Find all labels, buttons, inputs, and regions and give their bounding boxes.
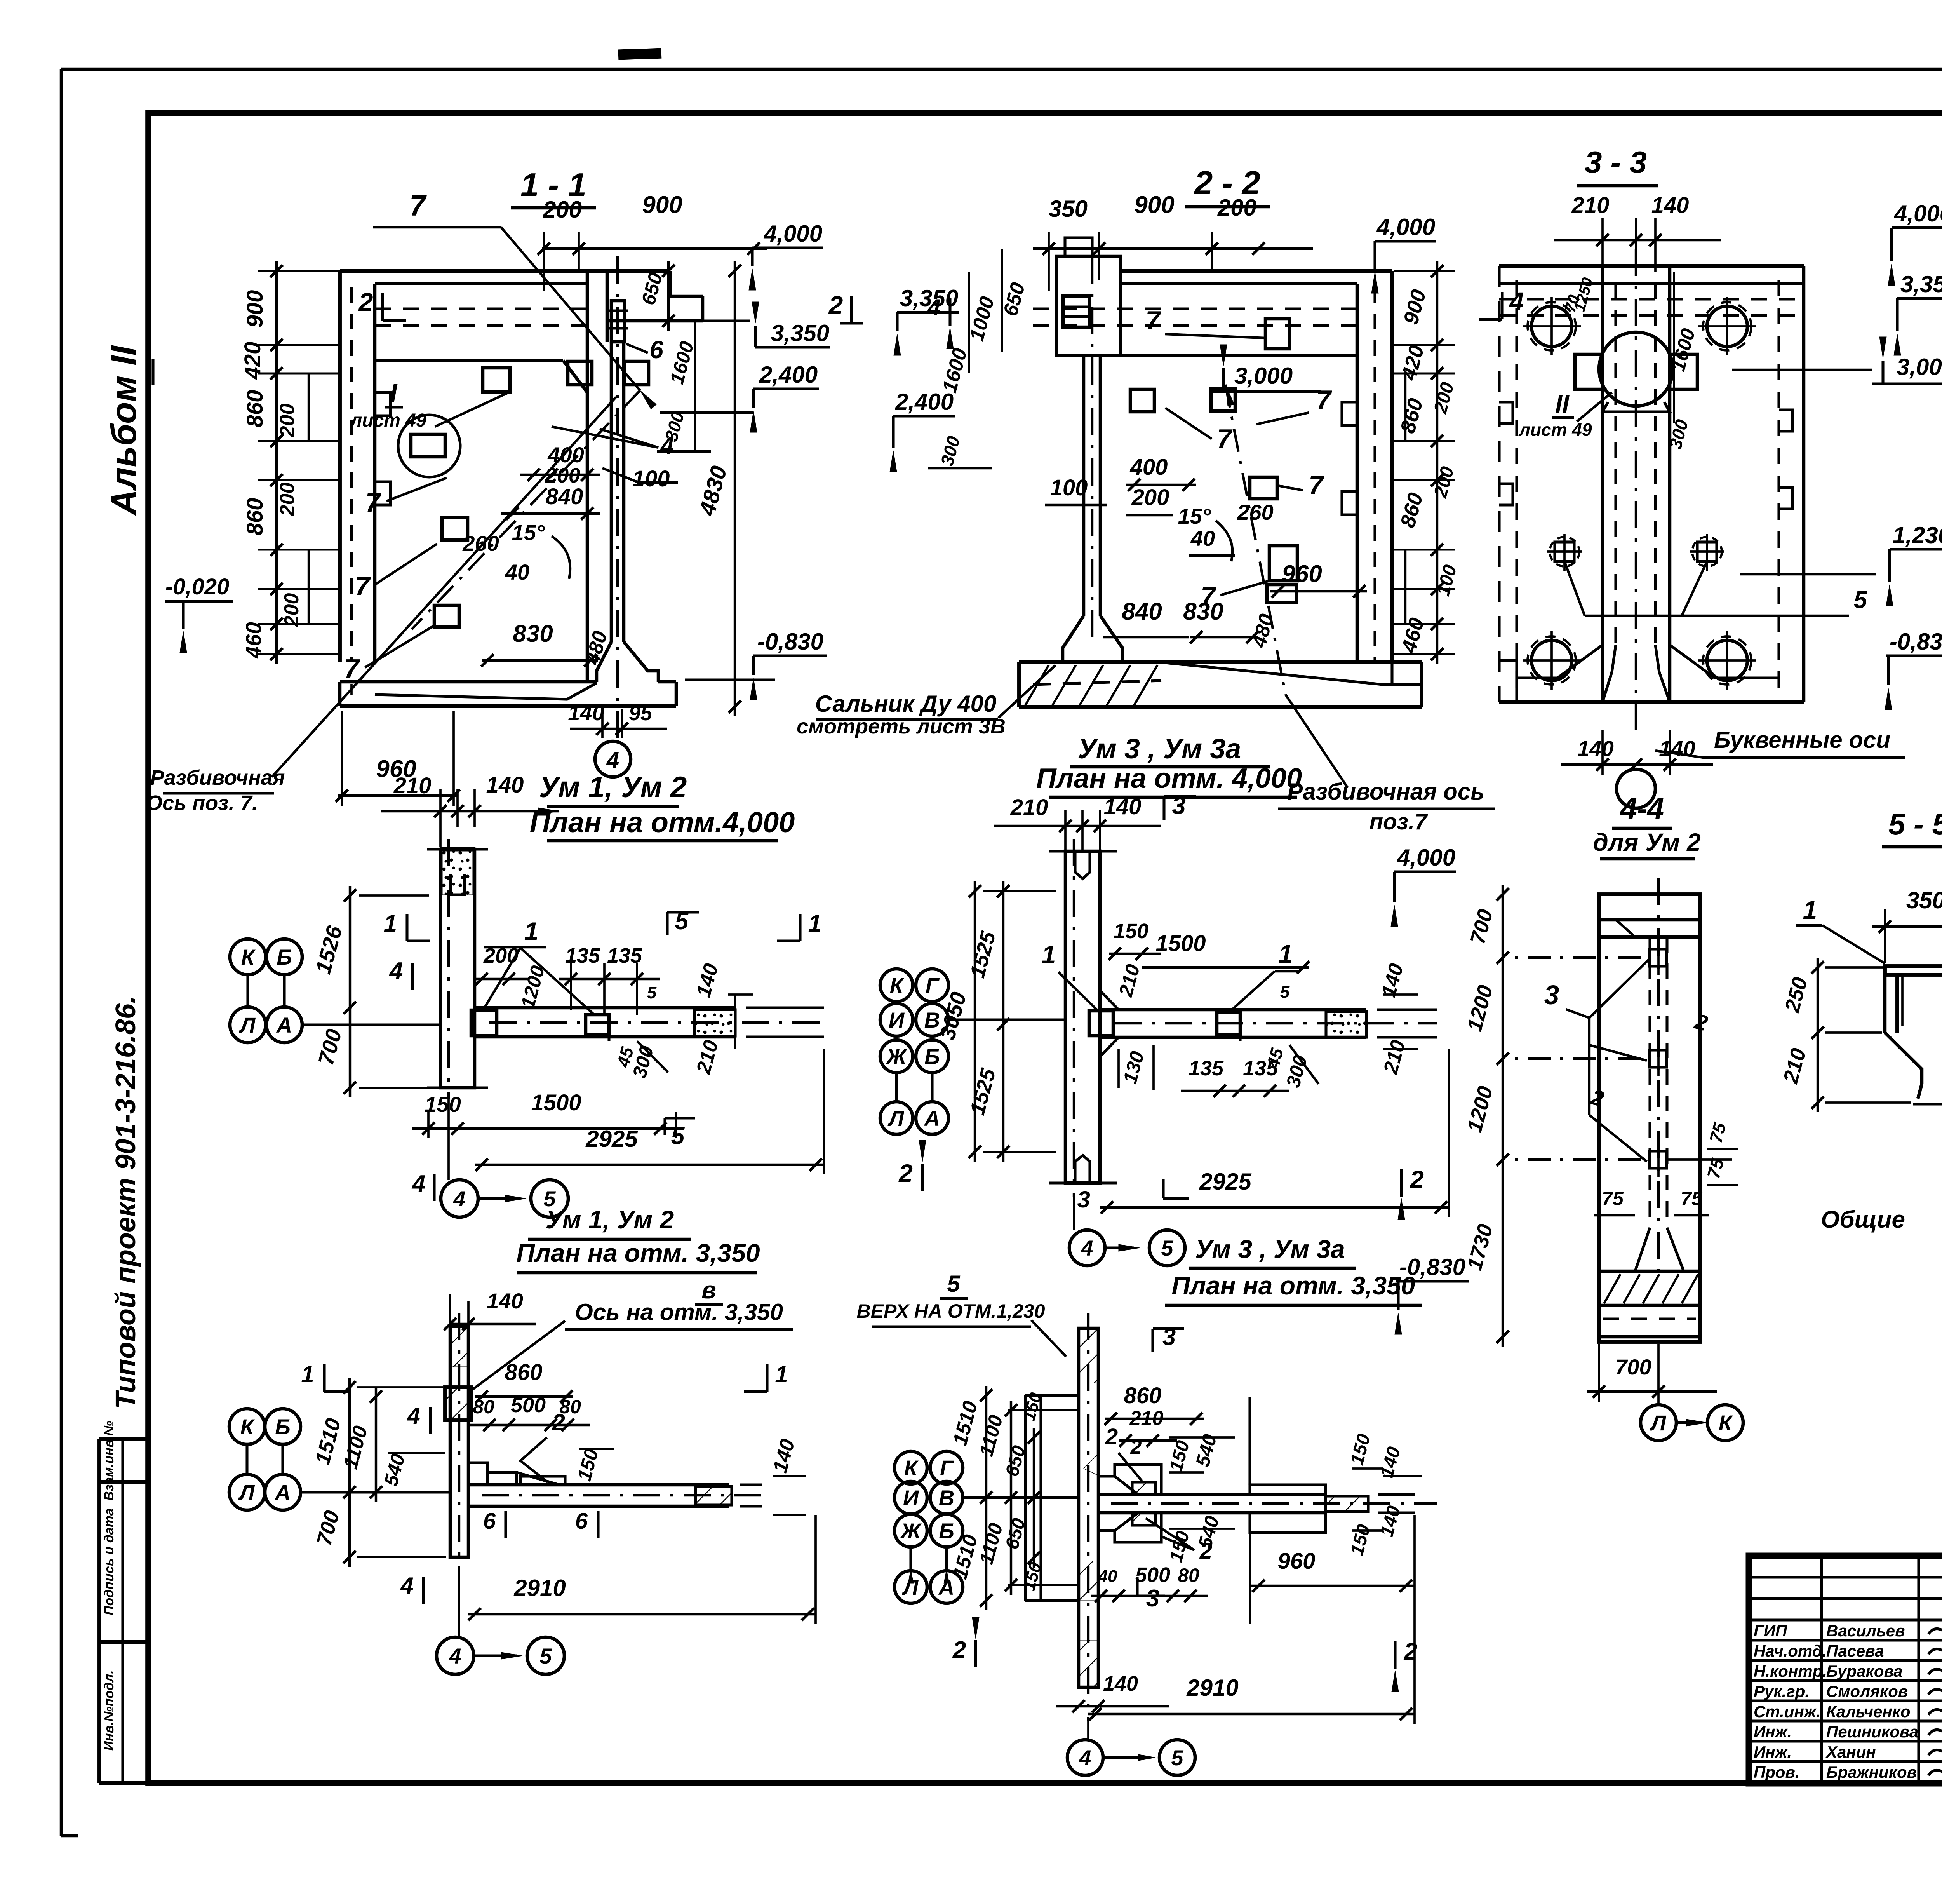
svg-text:1: 1 <box>301 1361 314 1387</box>
svg-text:140: 140 <box>1104 794 1142 819</box>
svg-text:4: 4 <box>606 747 619 773</box>
svg-text:ВЕРХ НА ОТМ.1,230: ВЕРХ НА ОТМ.1,230 <box>857 1300 1045 1322</box>
svg-text:Ум 1, Ум 2: Ум 1, Ум 2 <box>539 771 687 804</box>
svg-text:Ж: Ж <box>900 1519 922 1543</box>
svg-text:К: К <box>1719 1411 1733 1435</box>
svg-text:К: К <box>890 973 905 998</box>
svg-text:2: 2 <box>358 287 373 316</box>
svg-text:140: 140 <box>568 700 604 725</box>
svg-text:Ось поз. 7.: Ось поз. 7. <box>146 791 258 815</box>
svg-text:-0,830: -0,830 <box>1399 1254 1465 1280</box>
svg-text:Ст.инж.: Ст.инж. <box>1754 1702 1820 1721</box>
svg-text:7: 7 <box>409 189 427 222</box>
svg-text:500: 500 <box>1135 1563 1170 1587</box>
svg-text:Типовой проект 901-3-216.86.: Типовой проект 901-3-216.86. <box>110 996 141 1409</box>
svg-text:для Ум 2: для Ум 2 <box>1593 828 1700 856</box>
svg-text:II: II <box>1555 390 1570 418</box>
svg-text:830: 830 <box>513 620 553 647</box>
svg-text:-0,830: -0,830 <box>757 629 823 655</box>
svg-text:лист 49: лист 49 <box>350 410 426 431</box>
svg-text:А: А <box>276 1013 292 1037</box>
svg-text:2: 2 <box>898 1159 913 1187</box>
svg-text:2925: 2925 <box>1199 1169 1252 1195</box>
svg-text:ГИП: ГИП <box>1754 1622 1787 1640</box>
svg-text:Рук.гр.: Рук.гр. <box>1754 1682 1810 1700</box>
svg-text:2: 2 <box>1105 1424 1118 1449</box>
svg-text:2: 2 <box>952 1637 966 1664</box>
svg-text:4-4: 4-4 <box>1620 791 1664 826</box>
svg-text:4,000: 4,000 <box>1376 214 1435 240</box>
svg-text:Васильев: Васильев <box>1826 1622 1905 1640</box>
svg-text:95: 95 <box>629 702 653 725</box>
svg-text:Ось на отм. 3,350: Ось на отм. 3,350 <box>575 1299 783 1325</box>
svg-text:Взам.инв.№: Взам.инв.№ <box>102 1421 117 1501</box>
svg-text:И: И <box>903 1486 919 1510</box>
svg-text:900: 900 <box>642 192 682 218</box>
svg-text:1: 1 <box>1803 895 1817 924</box>
svg-text:830: 830 <box>1183 598 1223 625</box>
svg-text:Буракова: Буракова <box>1826 1662 1903 1680</box>
svg-text:860: 860 <box>242 390 268 428</box>
svg-text:150: 150 <box>1114 920 1148 943</box>
svg-text:200: 200 <box>543 197 582 223</box>
svg-text:860: 860 <box>1124 1383 1162 1408</box>
svg-text:15°: 15° <box>512 520 545 545</box>
svg-text:350: 350 <box>1906 887 1942 913</box>
svg-text:5: 5 <box>1854 587 1868 613</box>
svg-text:7: 7 <box>1145 306 1161 335</box>
svg-text:А: А <box>924 1106 940 1131</box>
svg-text:2925: 2925 <box>585 1126 638 1152</box>
svg-text:210: 210 <box>1571 193 1610 218</box>
svg-text:Г: Г <box>926 973 940 998</box>
svg-text:Л: Л <box>239 1013 256 1037</box>
svg-text:960: 960 <box>1282 561 1322 587</box>
svg-text:План на отм. 3,350: План на отм. 3,350 <box>516 1239 760 1267</box>
svg-text:3,000: 3,000 <box>1234 363 1293 389</box>
svg-text:Инж.: Инж. <box>1754 1723 1792 1741</box>
svg-text:Буквенные оси: Буквенные оси <box>1714 727 1890 753</box>
svg-text:Ум 3 , Ум 3а: Ум 3 , Ум 3а <box>1078 733 1241 765</box>
svg-text:Разбивочная: Разбивочная <box>150 766 285 789</box>
svg-text:4: 4 <box>400 1573 413 1599</box>
svg-text:4,000: 4,000 <box>1894 200 1942 226</box>
svg-text:Ум 1, Ум 2: Ум 1, Ум 2 <box>546 1205 674 1234</box>
svg-text:1: 1 <box>1279 939 1293 968</box>
svg-text:260: 260 <box>462 531 499 556</box>
svg-text:3: 3 <box>1544 980 1559 1010</box>
svg-text:Разбивочная ось: Разбивочная ось <box>1287 779 1484 805</box>
svg-text:5: 5 <box>947 1271 961 1297</box>
svg-text:900: 900 <box>242 290 268 328</box>
svg-text:Ум 3 , Ум 3а: Ум 3 , Ум 3а <box>1195 1235 1345 1263</box>
svg-text:140: 140 <box>486 772 524 798</box>
svg-text:7: 7 <box>365 487 382 517</box>
svg-text:5: 5 <box>1171 1745 1183 1770</box>
svg-text:Ханин: Ханин <box>1825 1743 1876 1761</box>
svg-text:200: 200 <box>1131 485 1169 510</box>
svg-text:4: 4 <box>1079 1745 1091 1770</box>
svg-text:2,400: 2,400 <box>895 389 954 415</box>
svg-text:2: 2 <box>828 291 843 319</box>
svg-text:400: 400 <box>547 442 584 467</box>
svg-text:40: 40 <box>1098 1567 1117 1586</box>
svg-text:460: 460 <box>241 622 266 658</box>
svg-text:Общие: Общие <box>1821 1206 1905 1233</box>
svg-text:3 - 3: 3 - 3 <box>1585 145 1647 179</box>
svg-text:3: 3 <box>1146 1585 1159 1612</box>
svg-text:260: 260 <box>1237 500 1273 524</box>
svg-text:2: 2 <box>1410 1165 1424 1193</box>
svg-text:140: 140 <box>1651 193 1689 218</box>
svg-text:140: 140 <box>1577 736 1613 761</box>
svg-text:Н.контр.: Н.контр. <box>1754 1662 1827 1680</box>
svg-text:4: 4 <box>453 1186 465 1211</box>
svg-text:4: 4 <box>411 1171 425 1197</box>
svg-text:7: 7 <box>1316 385 1332 415</box>
svg-text:2910: 2910 <box>513 1575 566 1601</box>
svg-text:1: 1 <box>384 910 397 937</box>
svg-text:-0,830: -0,830 <box>1890 629 1942 655</box>
svg-text:1500: 1500 <box>531 1090 581 1115</box>
svg-text:210: 210 <box>1129 1407 1164 1430</box>
svg-text:Пасева: Пасева <box>1826 1642 1884 1660</box>
svg-text:Б: Б <box>275 1414 291 1439</box>
svg-text:5: 5 <box>1161 1236 1173 1260</box>
svg-text:80: 80 <box>1178 1564 1199 1586</box>
svg-text:1: 1 <box>524 917 539 946</box>
svg-text:5: 5 <box>671 1123 685 1150</box>
svg-text:7: 7 <box>344 653 360 684</box>
svg-text:Ж: Ж <box>885 1044 908 1069</box>
svg-text:900: 900 <box>1134 192 1174 218</box>
svg-text:Пров.: Пров. <box>1754 1763 1800 1781</box>
svg-text:1: 1 <box>1042 940 1056 969</box>
svg-text:2910: 2910 <box>1186 1675 1238 1701</box>
svg-text:Б: Б <box>939 1519 954 1543</box>
svg-text:200: 200 <box>276 404 299 438</box>
svg-text:смотреть лист 3В: смотреть лист 3В <box>797 715 1006 738</box>
svg-text:Г: Г <box>940 1456 954 1480</box>
svg-text:3,350: 3,350 <box>771 320 829 346</box>
svg-text:960: 960 <box>1278 1549 1316 1574</box>
svg-text:1: 1 <box>808 910 821 937</box>
svg-text:6: 6 <box>649 336 663 364</box>
svg-text:План на отм. 4,000: План на отм. 4,000 <box>1036 763 1302 794</box>
svg-text:200: 200 <box>1217 195 1256 221</box>
svg-text:5: 5 <box>539 1644 552 1668</box>
svg-text:40: 40 <box>1190 526 1215 550</box>
svg-text:И: И <box>889 1008 905 1032</box>
svg-text:2,400: 2,400 <box>759 362 818 388</box>
svg-text:860: 860 <box>505 1360 543 1385</box>
svg-text:100: 100 <box>632 466 670 491</box>
svg-text:I: I <box>390 378 398 408</box>
svg-text:3,000: 3,000 <box>1897 354 1942 380</box>
svg-text:Б: Б <box>277 945 292 969</box>
svg-text:4: 4 <box>389 958 403 984</box>
svg-text:80: 80 <box>473 1396 494 1418</box>
svg-text:6: 6 <box>575 1509 588 1534</box>
svg-text:1,230: 1,230 <box>1893 522 1942 548</box>
svg-text:5: 5 <box>1280 982 1290 1002</box>
svg-text:40: 40 <box>505 560 529 584</box>
svg-text:2: 2 <box>1130 1436 1142 1458</box>
svg-text:4,000: 4,000 <box>764 221 822 247</box>
svg-text:Инв.№подл.: Инв.№подл. <box>102 1670 117 1751</box>
svg-text:3,350: 3,350 <box>1900 271 1942 297</box>
svg-text:План на отм. 3,350: План на отм. 3,350 <box>1171 1271 1415 1300</box>
svg-text:200: 200 <box>276 483 299 517</box>
svg-text:Смоляков: Смоляков <box>1826 1682 1908 1700</box>
svg-text:200: 200 <box>483 944 519 967</box>
svg-text:3: 3 <box>1077 1186 1090 1212</box>
svg-text:210: 210 <box>393 773 432 798</box>
svg-text:1500: 1500 <box>1155 931 1206 956</box>
svg-text:100: 100 <box>1050 475 1088 500</box>
svg-text:5: 5 <box>647 983 657 1002</box>
svg-text:7: 7 <box>1217 424 1233 453</box>
svg-text:135: 135 <box>1189 1057 1224 1080</box>
svg-text:140: 140 <box>1659 736 1695 761</box>
svg-text:4: 4 <box>407 1403 420 1429</box>
svg-text:7: 7 <box>355 571 371 601</box>
svg-text:Альбом II: Альбом II <box>104 345 144 516</box>
svg-text:150: 150 <box>425 1092 461 1117</box>
svg-text:80: 80 <box>559 1396 581 1418</box>
svg-text:140: 140 <box>1103 1672 1138 1695</box>
svg-text:Бражников: Бражников <box>1826 1763 1917 1781</box>
svg-text:К: К <box>904 1456 919 1480</box>
svg-text:К: К <box>241 945 256 969</box>
svg-text:К: К <box>240 1414 255 1439</box>
svg-text:А: А <box>274 1480 291 1505</box>
svg-text:План на отм.4,000: План на отм.4,000 <box>530 806 795 838</box>
svg-text:5 - 5: 5 - 5 <box>1888 807 1942 841</box>
svg-text:4: 4 <box>449 1644 461 1668</box>
svg-text:420: 420 <box>240 342 265 380</box>
svg-text:Б: Б <box>924 1044 940 1069</box>
svg-text:840: 840 <box>546 484 583 509</box>
svg-text:-0,020: -0,020 <box>165 574 229 599</box>
svg-text:400: 400 <box>1130 455 1168 480</box>
svg-text:поз.7: поз.7 <box>1369 809 1429 834</box>
svg-text:500: 500 <box>511 1394 546 1417</box>
svg-text:840: 840 <box>1122 598 1162 625</box>
svg-text:Сальник Ду 400: Сальник Ду 400 <box>815 691 997 717</box>
svg-text:4,000: 4,000 <box>1397 845 1455 871</box>
svg-text:Кальченко: Кальченко <box>1826 1702 1911 1721</box>
svg-text:Нач.отд.: Нач.отд. <box>1754 1642 1827 1660</box>
svg-text:700: 700 <box>1615 1355 1651 1379</box>
svg-text:210: 210 <box>1010 795 1048 820</box>
svg-text:Л: Л <box>238 1480 255 1505</box>
svg-text:15°: 15° <box>1178 504 1211 528</box>
svg-text:Подпись и дата: Подпись и дата <box>102 1508 117 1615</box>
svg-text:75: 75 <box>1602 1188 1624 1209</box>
svg-text:6: 6 <box>483 1509 496 1534</box>
svg-text:Л: Л <box>1650 1411 1667 1435</box>
svg-text:7: 7 <box>1309 470 1324 500</box>
svg-text:200: 200 <box>280 593 303 627</box>
svg-text:лист 49: лист 49 <box>1518 420 1592 440</box>
svg-text:350: 350 <box>1049 196 1088 222</box>
svg-text:1: 1 <box>775 1361 788 1387</box>
svg-text:В: В <box>939 1486 954 1510</box>
svg-text:Л: Л <box>887 1106 905 1131</box>
svg-text:4: 4 <box>927 294 940 321</box>
svg-text:75: 75 <box>1681 1188 1703 1209</box>
svg-text:140: 140 <box>487 1289 523 1313</box>
svg-text:Инж.: Инж. <box>1754 1743 1792 1761</box>
svg-text:860: 860 <box>242 498 268 536</box>
svg-text:4: 4 <box>1081 1236 1093 1260</box>
svg-text:Пешникова: Пешникова <box>1826 1723 1918 1741</box>
